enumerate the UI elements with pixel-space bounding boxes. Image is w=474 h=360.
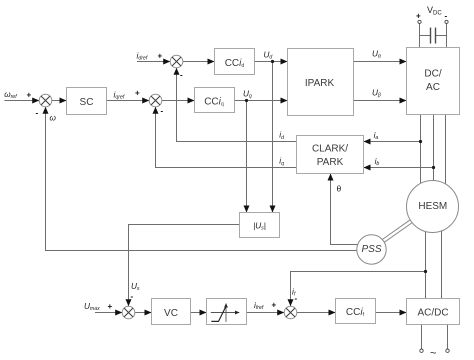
wire SJd to CCid bbox=[183, 61, 215, 63]
wire Uq: CCiq to IPARK bbox=[235, 100, 288, 102]
wire CCif to AC/DC bbox=[376, 312, 407, 314]
block CCid bbox=[215, 49, 255, 75]
wire AC/DC ac output right bbox=[447, 325, 449, 350]
block CCiq bbox=[195, 88, 235, 113]
wire Ud: CCid to IPARK bbox=[255, 61, 288, 63]
svg-text:CCif: CCif bbox=[346, 307, 365, 318]
terminal ac left bbox=[420, 349, 423, 352]
sensor PSS bbox=[357, 235, 386, 264]
wire omega_ref input bbox=[5, 100, 40, 102]
svg-text:-: - bbox=[180, 71, 183, 80]
node if tap bbox=[424, 270, 427, 273]
capacitor DC link: right stub bbox=[436, 35, 447, 37]
block saturation bbox=[207, 299, 247, 325]
svg-text:HESM: HESM bbox=[418, 201, 447, 212]
block VC bbox=[152, 299, 191, 325]
svg-text:IPARK: IPARK bbox=[305, 78, 335, 89]
wire Ud tap down to |Us| bbox=[272, 62, 274, 213]
svg-text:-: - bbox=[36, 109, 39, 118]
svg-text:VC: VC bbox=[164, 308, 178, 319]
wire iq feedback: CLARK/PARK to SJq bbox=[156, 107, 297, 168]
capacitor DC link: left stub bbox=[420, 35, 431, 37]
svg-text:-: - bbox=[445, 12, 448, 21]
shaft HESM to PSS double line bbox=[382, 218, 414, 242]
node Uq tap bbox=[245, 99, 248, 102]
svg-text:SC: SC bbox=[80, 97, 94, 108]
svg-text:PARK: PARK bbox=[317, 157, 344, 168]
summing junction SJf field bbox=[284, 306, 297, 319]
svg-text:-: - bbox=[295, 294, 298, 303]
capacitor DC link: right plate bbox=[435, 28, 437, 44]
terminal Vdc plus bbox=[418, 20, 421, 23]
wire ib: phase line to CLARK/PARK bbox=[364, 167, 434, 169]
wire SJv to VC bbox=[135, 312, 152, 314]
wire SC to SJq bbox=[107, 100, 150, 102]
svg-text:θ: θ bbox=[337, 184, 342, 194]
wire omega feedback: PSS to SJ1 bbox=[46, 107, 358, 251]
svg-text:+: + bbox=[108, 302, 113, 311]
wire ifref: SAT to SJf bbox=[247, 312, 285, 314]
terminal Vdc minus bbox=[445, 20, 448, 23]
wire ia: phase line to CLARK/PARK bbox=[364, 141, 421, 143]
node ib tap bbox=[432, 166, 435, 169]
block AC/DC bbox=[407, 299, 460, 325]
wire Ubeta: IPARK to DC/AC bbox=[354, 100, 407, 102]
capacitor DC link: left plate bbox=[430, 28, 432, 44]
svg-text:AC/DC: AC/DC bbox=[417, 308, 448, 319]
wire Vdc minus terminal down bbox=[446, 24, 448, 48]
wire phase b: DC/AC to HESM bbox=[433, 115, 435, 187]
svg-text:PSS: PSS bbox=[361, 244, 381, 255]
block IPARK bbox=[288, 49, 354, 116]
wire phase a: DC/AC to HESM bbox=[420, 115, 422, 187]
summing junction SJd bbox=[170, 55, 183, 68]
svg-text:+: + bbox=[416, 12, 421, 21]
block |Us| bbox=[240, 213, 280, 238]
svg-text:+: + bbox=[272, 301, 277, 310]
node Ud tap bbox=[271, 60, 274, 63]
svg-text:CLARK/: CLARK/ bbox=[312, 144, 348, 155]
summing junction SJv voltage bbox=[122, 306, 135, 319]
machine HESM bbox=[407, 181, 459, 233]
wire idref input bbox=[137, 61, 170, 63]
block SC bbox=[67, 88, 107, 115]
terminal ac right bbox=[446, 349, 449, 352]
svg-text:DC/: DC/ bbox=[424, 69, 441, 80]
wire field a: HESM to AC/DC bbox=[425, 228, 427, 299]
wire SJ1 to SC bbox=[52, 100, 67, 102]
svg-text:+: + bbox=[158, 52, 163, 61]
wire Umax input bbox=[95, 312, 122, 314]
summing junction SJq bbox=[149, 94, 162, 107]
node ia tap bbox=[419, 140, 422, 143]
wire if feedback: field line to SJf bbox=[291, 272, 426, 307]
wire Vdc plus terminal down bbox=[419, 24, 421, 48]
wire VC to SAT bbox=[191, 312, 207, 314]
block CLARK/PARK bbox=[297, 136, 364, 174]
wire field b: HESM to AC/DC bbox=[441, 228, 443, 299]
wire Us feedback: |Us| to SJv bbox=[129, 225, 240, 307]
svg-text:+: + bbox=[135, 89, 140, 98]
wire id feedback: CLARK/PARK to SJd bbox=[177, 68, 297, 142]
wire Ualpha: IPARK to DC/AC bbox=[354, 61, 407, 63]
block DC/AC bbox=[407, 48, 460, 115]
wire SJf to CCif bbox=[297, 312, 336, 314]
wire SJq to CCiq bbox=[162, 100, 195, 102]
svg-text:AC: AC bbox=[426, 82, 440, 93]
svg-text:-: - bbox=[161, 107, 164, 116]
svg-text:|Us|: |Us| bbox=[253, 222, 266, 232]
svg-text:-: - bbox=[131, 292, 134, 301]
wire theta: PSS to CLARK/PARK bbox=[331, 174, 359, 245]
svg-text:+: + bbox=[27, 91, 32, 100]
svg-text:~: ~ bbox=[430, 348, 436, 360]
svg-text:ω: ω bbox=[50, 114, 57, 123]
wire AC/DC ac output left bbox=[421, 325, 423, 350]
summing junction SJ1 speed bbox=[39, 94, 52, 107]
wire Uq tap down to |Us| bbox=[246, 101, 248, 213]
wire phase c: DC/AC to HESM bbox=[445, 115, 447, 187]
block CCif bbox=[336, 299, 376, 324]
